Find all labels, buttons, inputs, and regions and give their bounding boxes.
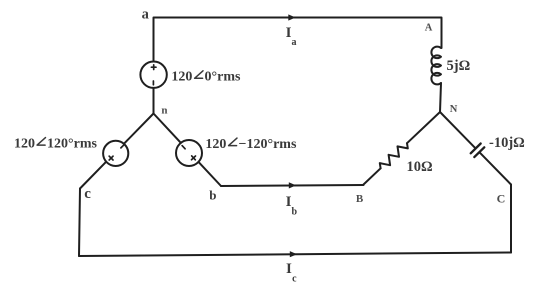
svg-text:0°rms: 0°rms bbox=[205, 70, 241, 85]
inductor 5johm bbox=[431, 47, 441, 85]
svg-text:A: A bbox=[425, 23, 433, 34]
svg-text:120°rms: 120°rms bbox=[47, 137, 97, 152]
svg-text:5jΩ: 5jΩ bbox=[447, 58, 471, 74]
arrow Ic bbox=[290, 251, 297, 257]
voltage source V-cn (left circle) bbox=[103, 141, 128, 166]
wire top (a to A) bbox=[154, 18, 442, 62]
wire coil to N bbox=[440, 83, 441, 112]
svg-text:C: C bbox=[497, 191, 506, 205]
svg-text:a: a bbox=[142, 6, 150, 22]
capacitor -10johm bbox=[440, 112, 476, 148]
resistor 10ohm bbox=[364, 168, 381, 184]
svg-text:−120°rms: −120°rms bbox=[239, 137, 297, 152]
wire b to B bbox=[221, 185, 364, 186]
wire left source to c bbox=[80, 162, 106, 189]
voltage source V-an (top circle) bbox=[140, 61, 166, 87]
svg-text:c: c bbox=[84, 186, 91, 202]
svg-text:120: 120 bbox=[171, 70, 192, 85]
voltage source V-bn (right circle) bbox=[176, 140, 202, 166]
wire bottom (c to C) bbox=[79, 253, 511, 257]
svg-text:n: n bbox=[161, 105, 167, 117]
svg-text:120: 120 bbox=[205, 137, 226, 152]
wire right source to b bbox=[199, 162, 222, 186]
svg-text:a: a bbox=[292, 37, 297, 48]
wire c down to bottom bbox=[79, 189, 80, 257]
wire n to top source bbox=[153, 88, 155, 114]
svg-text:c: c bbox=[292, 274, 297, 285]
svg-text:-10jΩ: -10jΩ bbox=[489, 135, 525, 151]
arrow Ib bbox=[289, 182, 296, 188]
wire n to right source bbox=[154, 114, 181, 143]
wire C down to bottom bbox=[510, 185, 512, 253]
svg-text:10Ω: 10Ω bbox=[407, 159, 433, 175]
svg-text:120: 120 bbox=[14, 137, 35, 152]
arrow Ia bbox=[288, 14, 295, 20]
svg-text:b: b bbox=[292, 206, 298, 217]
svg-text:N: N bbox=[450, 104, 458, 115]
wire n to left source bbox=[124, 114, 154, 144]
svg-text:b: b bbox=[209, 187, 216, 202]
svg-text:B: B bbox=[356, 193, 364, 205]
